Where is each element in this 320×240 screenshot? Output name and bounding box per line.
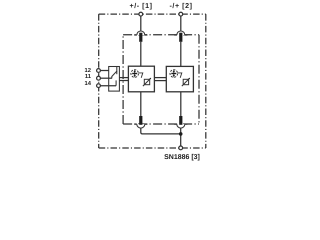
plug connector: top left (plug tab) [139, 33, 142, 42]
wire: terminal 11 to contact box [100, 77, 112, 79]
plug connector: bottom right (socket arc) [177, 124, 185, 128]
svg-text:14: 14 [85, 81, 92, 87]
gas discharge tube symbol in U2 (dashed circle) [170, 70, 178, 78]
plug connector: bottom right (plug tab) [179, 116, 182, 125]
terminal -/+ [2] (open circle) [179, 12, 183, 16]
plug connector: bottom left (plug tab) [139, 116, 142, 125]
svg-text:12: 12 [85, 67, 91, 74]
contact S1: changeover lever [112, 71, 117, 77]
varistor symbol in U2 (square with diagonal) [182, 78, 190, 86]
wire: left branch bottom elbow to junction [141, 128, 181, 134]
wire: right branch vertical from terminal [2] [180, 16, 182, 31]
varistor symbol in U1 (square with diagonal) [143, 78, 151, 86]
terminal 11 (open circle) [97, 76, 101, 80]
plug connector: bottom left (socket arc) [137, 124, 145, 128]
wire: right branch tab to box U2 [180, 42, 182, 67]
terminal [3] ground side (open circle) [179, 146, 183, 150]
inner pluggable-module boundary (dashed chain line) [123, 35, 199, 124]
gas discharge tube symbol in U1 (dashed circle) [131, 70, 139, 78]
contact S1: pivot stub to terminal 11 [111, 76, 113, 78]
outer enclosure border (dash-dot chain line) [99, 14, 206, 148]
wire stubs at top-left connector arc feet [134, 34, 147, 36]
terminal 14 (open circle) [97, 84, 101, 88]
wire pair: contact box to module box U1 [119, 77, 128, 79]
terminal +/- [1] (open circle) [139, 12, 143, 16]
protection module box U2 [166, 66, 193, 91]
contact S1: fixed contact post (terminal 14 side) [115, 80, 117, 85]
svg-text:SN1886 [3]: SN1886 [3] [164, 153, 200, 161]
wire: left branch vertical from terminal [1] [140, 16, 142, 31]
wire: right branch box U2 to bottom tab [180, 92, 182, 117]
wire stubs at bottom-right connector arc feet [174, 123, 187, 125]
plug connector: top right (plug tab) [179, 33, 182, 42]
wire: left branch tab to box U1 [140, 42, 142, 66]
svg-text:11: 11 [85, 74, 92, 80]
plug connector: top right (socket arc) [177, 31, 185, 35]
plug connector: top left (socket arc) [137, 31, 145, 35]
wire: terminal 12 to contact box [100, 70, 108, 72]
surge arrow (lightning) in U2 [178, 73, 182, 78]
contact S1: fixed post (terminal 12 side) [116, 67, 118, 74]
wire: right branch bottom to terminal [3] [180, 128, 182, 146]
protection module box U1 [128, 66, 154, 92]
wire pair: module box U1 to module box U2 [154, 77, 166, 79]
svg-text:+/- [1]: +/- [1] [130, 2, 153, 10]
junction dot at node joining both branches [179, 132, 183, 136]
wire stubs at top-right connector arc feet [174, 34, 187, 36]
terminal 12 (open circle) [97, 69, 101, 73]
svg-text:-/+ [2]: -/+ [2] [170, 2, 193, 10]
surge arrow (lightning) in U1 [139, 73, 143, 78]
wire stubs at bottom-left connector arc feet [134, 123, 147, 125]
remote-signal contact box S1 [109, 67, 120, 92]
wire: terminal 14 to contact box [100, 85, 116, 87]
wire: left branch box U1 to bottom tab [140, 92, 142, 117]
